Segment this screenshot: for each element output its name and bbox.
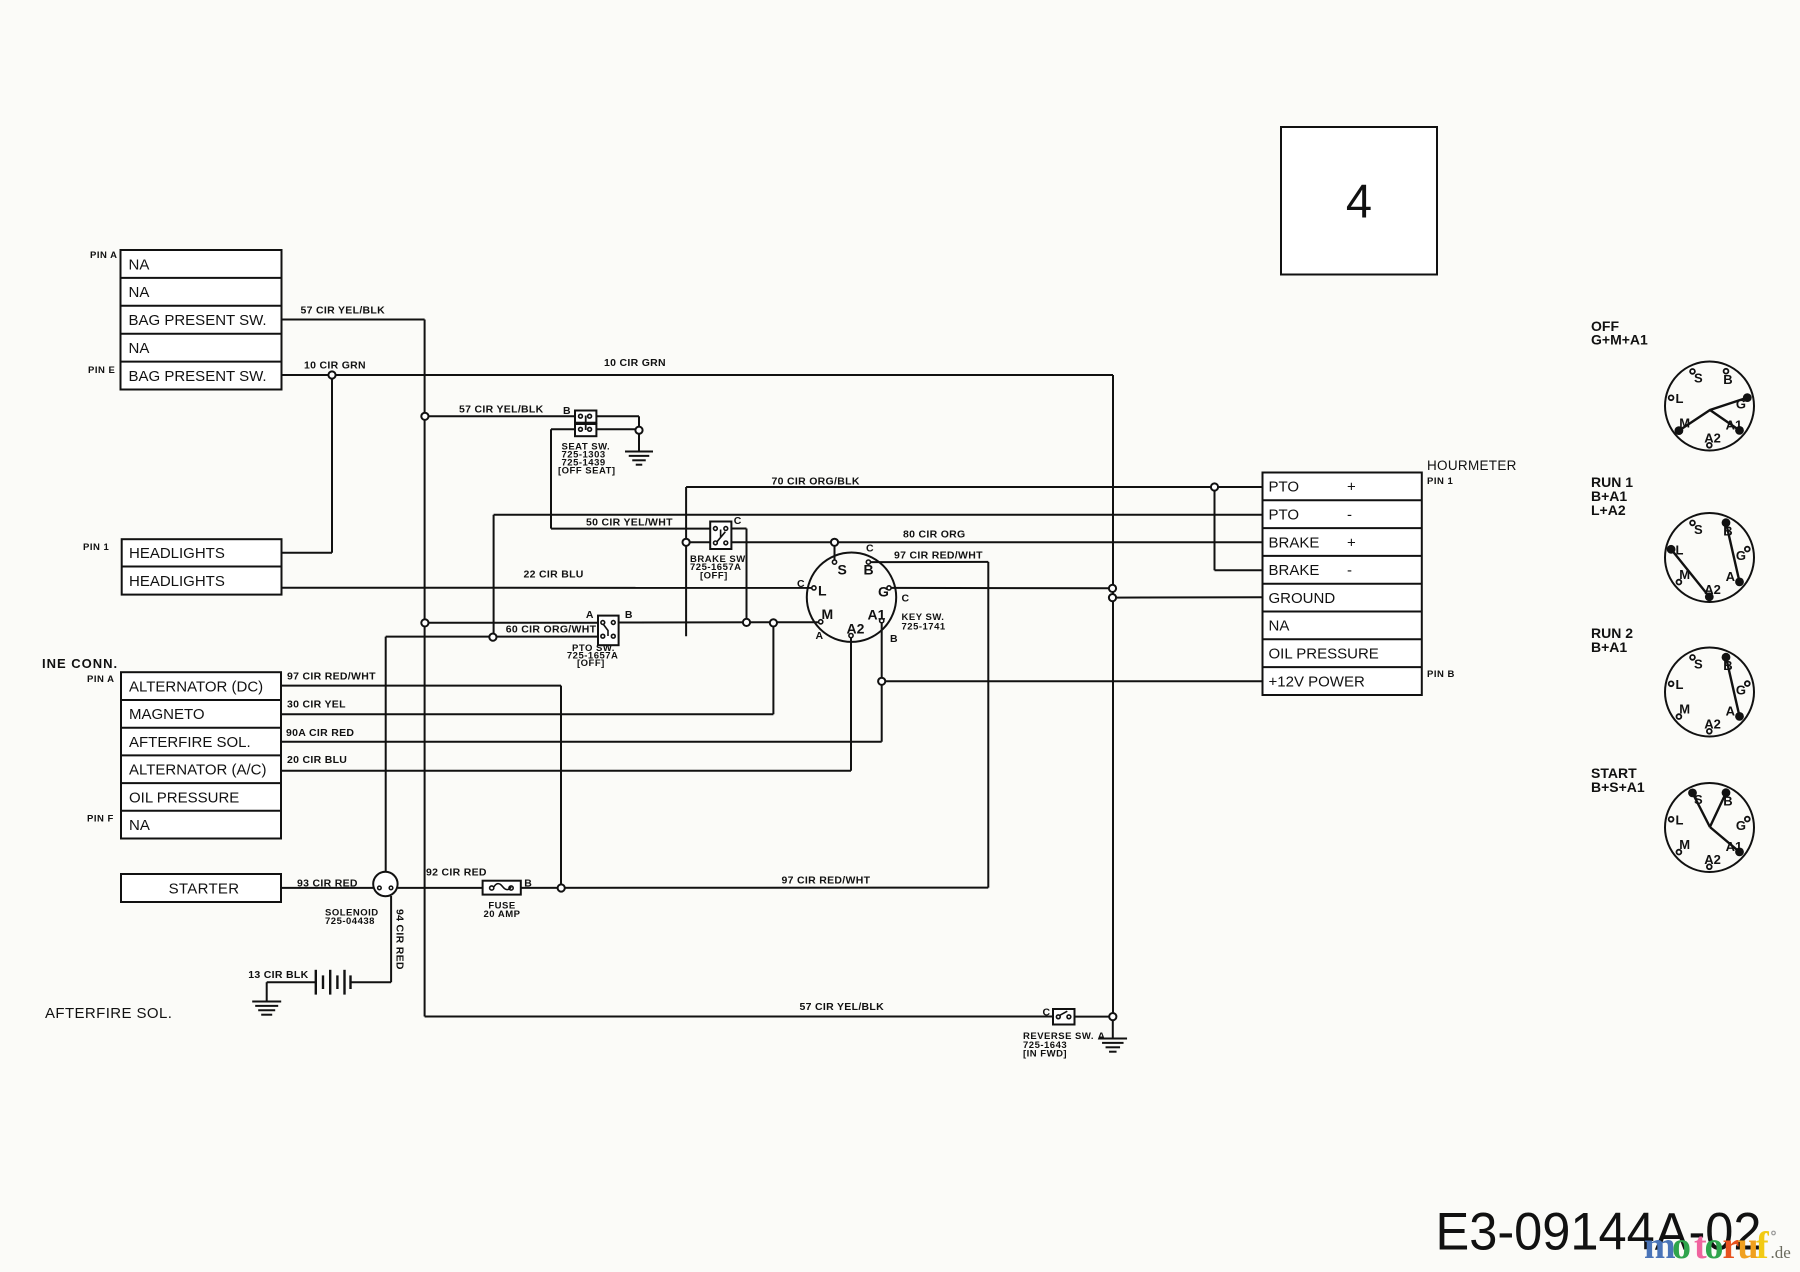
pin label PIN A (engine) — [87, 674, 114, 685]
svg-text:A: A — [1726, 569, 1736, 584]
svg-text:94 CIR RED: 94 CIR RED — [394, 909, 406, 970]
tag A (PTO switch) — [586, 609, 594, 621]
svg-text:BAG PRESENT SW.: BAG PRESENT SW. — [129, 368, 267, 385]
svg-text:AFTERFIRE SOL.: AFTERFIRE SOL. — [45, 1005, 172, 1022]
svg-text:o: o — [1672, 1225, 1691, 1267]
wire label 70 CIR ORG/BLK — [772, 476, 860, 488]
svg-text:22 CIR BLU: 22 CIR BLU — [524, 569, 584, 581]
svg-text:G: G — [1736, 396, 1746, 411]
tag B (fuse) — [524, 878, 532, 890]
svg-text:S: S — [838, 562, 847, 578]
svg-text:-: - — [1347, 507, 1352, 524]
junction seat ground — [635, 427, 642, 434]
label seat switch — [558, 442, 616, 477]
svg-text:B: B — [524, 878, 532, 890]
svg-text:B: B — [1723, 658, 1732, 673]
key position diagram START — [1665, 783, 1754, 872]
svg-text:60 CIR ORG/WHT: 60 CIR ORG/WHT — [506, 624, 597, 636]
svg-text:G: G — [1736, 682, 1746, 697]
svg-text:A: A — [816, 630, 824, 642]
key position diagram RUN 1 — [1665, 513, 1754, 602]
svg-text:NA: NA — [129, 340, 150, 357]
svg-text:A: A — [586, 609, 594, 621]
label solenoid — [325, 908, 379, 928]
wire 57 CIR YEL/BLK from bag connector row 3, left bus x=425, bottom run to reverse switch — [282, 320, 1054, 1017]
svg-text:OIL PRESSURE: OIL PRESSURE — [129, 789, 239, 806]
svg-text:+12V POWER: +12V POWER — [1269, 673, 1365, 690]
svg-text:C: C — [1043, 1007, 1051, 1019]
afterfire coil — [316, 970, 351, 995]
wire 90A CIR RED afterfire solenoid to key A1 riser — [281, 621, 882, 742]
tag C (key G wire) — [902, 593, 910, 605]
wire label 10 CIR GRN — [304, 360, 366, 372]
reverse switch SW4 — [1053, 1009, 1075, 1025]
svg-text:GROUND: GROUND — [1269, 590, 1336, 607]
svg-text:A1: A1 — [1726, 418, 1743, 433]
label RUN 1 position — [1591, 474, 1633, 518]
svg-text:C: C — [866, 543, 874, 555]
svg-text:B: B — [890, 633, 898, 645]
node 10 CIR GRN tap — [328, 371, 335, 378]
wire label 97 CIR RED/WHT — [782, 875, 871, 887]
label RUN 2 position — [1591, 625, 1633, 655]
svg-text:B: B — [1723, 794, 1732, 809]
wire label 57 CIR YEL/BLK — [301, 305, 386, 317]
pin label PIN A (bag) — [90, 250, 117, 261]
svg-text:PIN 1: PIN 1 — [1427, 476, 1453, 487]
svg-text:G: G — [1736, 818, 1746, 833]
svg-text:PIN A: PIN A — [87, 674, 114, 685]
svg-text:PTO: PTO — [1269, 507, 1300, 524]
wire 93 CIR RED starter to solenoid — [281, 887, 373, 889]
node fuse output tap — [558, 884, 565, 891]
wire label 57 CIR YEL/BLK — [800, 1001, 885, 1013]
wire 22 CIR BLU headlights row2 to key switch L — [282, 587, 814, 589]
svg-text:-: - — [1347, 562, 1352, 579]
svg-text:BAG PRESENT SW.: BAG PRESENT SW. — [129, 312, 267, 329]
svg-text:HEADLIGHTS: HEADLIGHTS — [129, 545, 225, 562]
svg-text:A: A — [1726, 704, 1736, 719]
wire PTO switch B to key switch M — [619, 621, 821, 623]
svg-text:92 CIR RED: 92 CIR RED — [426, 867, 487, 879]
node PTO- tap — [489, 634, 496, 641]
tag C (reverse switch) — [1043, 1007, 1051, 1019]
node PTO+/BRAKE- tap — [1211, 483, 1218, 490]
svg-text:10 CIR GRN: 10 CIR GRN — [604, 357, 666, 369]
svg-text:+: + — [1347, 479, 1356, 496]
svg-text:30 CIR YEL: 30 CIR YEL — [287, 699, 346, 711]
label INE CONN. — [42, 656, 118, 671]
wire label 13 CIR BLK — [248, 969, 308, 981]
wire 20 CIR BLU alternator A/C to key A2 riser — [281, 636, 851, 771]
svg-text:50 CIR YEL/WHT: 50 CIR YEL/WHT — [586, 517, 673, 529]
svg-text:13 CIR BLK: 13 CIR BLK — [248, 969, 308, 981]
svg-text:OIL PRESSURE: OIL PRESSURE — [1269, 646, 1379, 663]
wire 94 CIR RED solenoid to afterfire coil — [351, 896, 392, 982]
wire 13 CIR BLK coil to ground — [267, 982, 316, 1001]
node magneto riser tap — [770, 619, 777, 626]
svg-text:A2: A2 — [847, 621, 865, 637]
svg-text:+: + — [1347, 534, 1356, 551]
svg-text:PTO: PTO — [1269, 479, 1300, 496]
node reverse switch ground — [1109, 1013, 1116, 1020]
svg-text:NA: NA — [129, 284, 150, 301]
wire 60 CIR ORG/WHT to PTO switch and solenoid riser — [386, 637, 598, 872]
ground reverse switch — [1099, 1039, 1128, 1052]
wire 70 CIR ORG/BLK to hourmeter PTO+ — [686, 486, 1262, 488]
tag B (key A1 wire) — [890, 633, 898, 645]
sheet number box 4 — [1281, 127, 1437, 275]
wire label 97 CIR RED/WHT — [287, 671, 376, 683]
svg-text:70 CIR ORG/BLK: 70 CIR ORG/BLK — [772, 476, 860, 488]
watermark motoruf.de — [1644, 1225, 1791, 1267]
tag A (key M wire) — [816, 630, 824, 642]
tag B (PTO switch) — [625, 609, 633, 621]
label reverse switch — [1023, 1031, 1094, 1060]
svg-text:m: m — [1644, 1225, 1676, 1267]
pin label PIN 1 (hourmeter) — [1427, 476, 1453, 487]
label HOURMETER — [1427, 458, 1517, 473]
label fuse — [484, 901, 521, 921]
wire headlights row1 feed from 10 CIR GRN junction — [282, 375, 333, 553]
wire label 20 CIR BLU — [287, 754, 347, 766]
svg-text:HEADLIGHTS: HEADLIGHTS — [129, 573, 225, 590]
tag C (brake switch) — [734, 515, 742, 527]
svg-text:[IN FWD]: [IN FWD] — [1023, 1049, 1067, 1060]
wire 50 CIR YEL/WHT seat switch bottom-left to brake switch — [551, 429, 710, 528]
key switch SW5 725-1741 — [807, 553, 896, 642]
svg-text:80 CIR ORG: 80 CIR ORG — [903, 529, 966, 541]
svg-text:A: A — [1098, 1031, 1106, 1043]
wire +12V POWER to hourmeter — [882, 680, 1263, 682]
svg-text:PIN A: PIN A — [90, 250, 117, 261]
svg-text:L: L — [1676, 543, 1684, 558]
wire hourmeter BRAKE- riser to PTO+ junction — [1215, 487, 1263, 570]
svg-text:[OFF SEAT]: [OFF SEAT] — [558, 466, 616, 477]
svg-text:S: S — [1694, 522, 1703, 537]
svg-text:B: B — [625, 609, 633, 621]
label PTO switch — [567, 643, 619, 669]
svg-text:A2: A2 — [1704, 430, 1721, 445]
ground afterfire — [252, 1002, 281, 1015]
wire label 80 CIR ORG — [903, 529, 966, 541]
wire seat switch bottom-right to ground junction — [596, 428, 639, 430]
svg-text:10 CIR GRN: 10 CIR GRN — [304, 360, 366, 372]
wire 57 CIR YEL/BLK branch to seat switch — [425, 415, 575, 417]
label START position — [1591, 765, 1645, 795]
node key S tap — [831, 539, 838, 546]
wire label 50 CIR YEL/WHT — [586, 517, 673, 529]
wire seat switch ground stem — [638, 435, 640, 451]
svg-text:90A CIR RED: 90A CIR RED — [286, 727, 354, 739]
svg-text:L: L — [1676, 677, 1684, 692]
key position diagram OFF — [1665, 362, 1754, 451]
svg-text:M: M — [1679, 837, 1690, 852]
svg-text:B: B — [1723, 524, 1732, 539]
brake switch SW2 — [710, 522, 731, 550]
svg-text:20 CIR BLU: 20 CIR BLU — [287, 754, 347, 766]
wire PTO switch A to bus x=425 — [425, 622, 598, 624]
svg-text:C: C — [734, 515, 742, 527]
node seat switch tap — [421, 413, 428, 420]
svg-text:f: f — [1756, 1225, 1770, 1267]
wire label 90A CIR RED — [286, 727, 354, 739]
wire 10 CIR GRN from bag connector PIN E, long run right, down bus x=1113 — [282, 375, 1114, 1017]
svg-text:L: L — [818, 583, 827, 599]
svg-text:ALTERNATOR (DC): ALTERNATOR (DC) — [129, 678, 263, 695]
node +12V tap — [878, 678, 885, 685]
svg-text:G+M+A1: G+M+A1 — [1591, 332, 1648, 348]
svg-text:.de: .de — [1771, 1243, 1791, 1262]
PTO switch SW3 — [598, 616, 619, 646]
svg-text:M: M — [822, 606, 834, 622]
svg-text:PIN 1: PIN 1 — [83, 542, 109, 553]
svg-text:97 CIR RED/WHT: 97 CIR RED/WHT — [287, 671, 376, 683]
wire label 94 CIR RED (rotated) — [394, 909, 406, 970]
svg-text:B+A1: B+A1 — [1591, 639, 1627, 655]
svg-text:20 AMP: 20 AMP — [484, 909, 521, 920]
svg-text:[OFF]: [OFF] — [577, 658, 605, 669]
node ground bus lower — [1109, 594, 1116, 601]
wire key switch S riser to 80 CIR ORG — [834, 542, 836, 562]
svg-text:NA: NA — [1269, 618, 1290, 635]
wire seat switch top-right to ground junction — [596, 416, 639, 430]
svg-text:C: C — [902, 593, 910, 605]
svg-text:G: G — [878, 584, 889, 600]
svg-text:NA: NA — [129, 256, 150, 273]
pin label PIN F (engine) — [87, 814, 114, 825]
svg-text:M: M — [1679, 702, 1690, 717]
wire key switch B to riser — [868, 561, 988, 563]
drawing number E3-09144A-02 — [1436, 1202, 1762, 1261]
wire key switch G to ground bus — [889, 587, 1113, 589]
connector engine (PIN A-F) — [121, 672, 281, 838]
wire label 10 CIR GRN — [604, 357, 666, 369]
wire 70 CIR ORG/BLK vertical bus x=686 — [685, 487, 687, 636]
svg-text:PIN E: PIN E — [88, 365, 115, 376]
fuse F1 20A — [483, 881, 521, 895]
svg-text:B: B — [864, 562, 874, 578]
svg-text:A2: A2 — [1704, 716, 1721, 731]
svg-text:INE CONN.: INE CONN. — [42, 656, 118, 671]
svg-text:B: B — [1723, 372, 1732, 387]
svg-text:L: L — [1676, 813, 1684, 828]
svg-text:97 CIR RED/WHT: 97 CIR RED/WHT — [782, 875, 871, 887]
tag A (reverse switch) — [1098, 1031, 1106, 1043]
node key G / ground bus upper — [1109, 585, 1116, 592]
svg-text:57 CIR YEL/BLK: 57 CIR YEL/BLK — [301, 305, 386, 317]
wire 97 CIR RED/WHT alternator DC down to fuse output — [281, 686, 561, 888]
svg-text:S: S — [1694, 371, 1703, 386]
wire 80 CIR ORG through brake switch bottom to hourmeter BRAKE+ — [686, 541, 1262, 543]
label AFTERFIRE SOL. — [45, 1005, 172, 1022]
svg-text:G: G — [1736, 548, 1746, 563]
wire ground bus to hourmeter GROUND — [1113, 596, 1263, 598]
svg-text:L+A2: L+A2 — [1591, 502, 1626, 518]
svg-text:L: L — [1676, 391, 1684, 406]
svg-text:C: C — [797, 578, 805, 590]
ground seat switch — [625, 452, 653, 465]
connector hourmeter — [1263, 473, 1422, 696]
svg-text:BRAKE: BRAKE — [1269, 534, 1320, 551]
pin label PIN 1 (headlights) — [83, 542, 109, 553]
svg-text:57 CIR YEL/BLK: 57 CIR YEL/BLK — [459, 404, 544, 416]
pin label PIN B (hourmeter) — [1427, 669, 1455, 680]
wire label 60 CIR ORG/WHT — [506, 624, 597, 636]
svg-text:M: M — [1679, 416, 1690, 431]
tag B (seat switch) — [563, 405, 571, 417]
seat switch SW1 — [575, 411, 596, 437]
connector starter — [121, 874, 281, 902]
wire label 93 CIR RED — [297, 878, 358, 890]
svg-text:o: o — [1705, 1225, 1724, 1267]
wire reverse switch to ground junction — [1075, 1017, 1113, 1038]
connector headlights (PIN 1) — [122, 539, 282, 594]
wire 30 CIR YEL magneto riser — [281, 623, 773, 714]
svg-text:B: B — [563, 405, 571, 417]
wire label 22 CIR BLU — [524, 569, 584, 581]
svg-text:AFTERFIRE SOL.: AFTERFIRE SOL. — [129, 734, 251, 751]
wire hourmeter PTO- to PTO switch branch — [494, 515, 1263, 637]
svg-text:PIN B: PIN B — [1427, 669, 1455, 680]
svg-text:S: S — [1694, 657, 1703, 672]
svg-text:ALTERNATOR (A/C): ALTERNATOR (A/C) — [129, 762, 267, 779]
svg-text:PIN F: PIN F — [87, 814, 114, 825]
node brake riser tap — [743, 619, 750, 626]
label OFF position — [1591, 318, 1648, 348]
tag C (key L wire) — [797, 578, 805, 590]
svg-text:S: S — [1694, 792, 1703, 807]
svg-text:4: 4 — [1346, 175, 1372, 228]
wire label 92 CIR RED — [426, 867, 487, 879]
connector bag harness (PIN A-E) — [121, 250, 282, 390]
label brake switch — [690, 554, 748, 582]
svg-text:[OFF]: [OFF] — [700, 571, 728, 582]
node BRAKE+ tap — [683, 539, 690, 546]
svg-text:97 CIR RED/WHT: 97 CIR RED/WHT — [894, 550, 983, 562]
wire label 97 CIR RED/WHT — [894, 550, 983, 562]
svg-text:57 CIR YEL/BLK: 57 CIR YEL/BLK — [800, 1001, 885, 1013]
svg-text:A2: A2 — [1704, 852, 1721, 867]
svg-text:BRAKE: BRAKE — [1269, 562, 1320, 579]
svg-text:93 CIR RED: 93 CIR RED — [297, 878, 358, 890]
svg-text:725-1741: 725-1741 — [902, 622, 946, 633]
svg-text:A1: A1 — [868, 607, 886, 623]
node PTO A tap — [421, 619, 428, 626]
svg-text:STARTER: STARTER — [169, 880, 240, 897]
svg-text:725-04438: 725-04438 — [325, 916, 375, 927]
label key switch — [902, 612, 946, 633]
wire label 57 CIR YEL/BLK — [459, 404, 544, 416]
key position diagram RUN 2 — [1665, 648, 1754, 737]
wire brake switch top-right riser down to PTO/M wire — [731, 529, 746, 623]
tag C (key B wire) — [866, 543, 874, 555]
wire 92 CIR RED / 97 CIR RED/WHT solenoid through fuse, riser to key B — [398, 562, 989, 888]
svg-text:A1: A1 — [1726, 839, 1743, 854]
svg-text:A2: A2 — [1704, 582, 1721, 597]
svg-text:MAGNETO: MAGNETO — [129, 706, 205, 723]
svg-text:NA: NA — [129, 817, 150, 834]
svg-text:HOURMETER: HOURMETER — [1427, 458, 1517, 473]
pin label PIN E (bag) — [88, 365, 115, 376]
svg-text:B+S+A1: B+S+A1 — [1591, 779, 1645, 795]
svg-text:M: M — [1679, 567, 1690, 582]
solenoid K1 — [373, 872, 397, 896]
wire label 30 CIR YEL — [287, 699, 346, 711]
